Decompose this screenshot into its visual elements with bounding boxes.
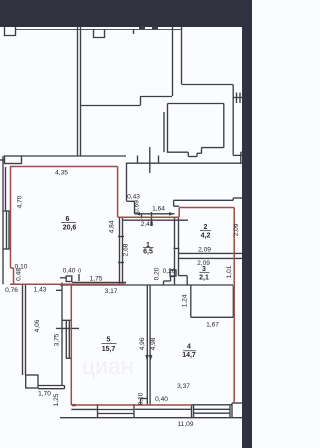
room labels (63, 216, 211, 359)
tick on corridor line (133, 30, 135, 35)
window hatch room6 left (3, 210, 11, 212)
underline room4 (183, 350, 196, 352)
svg-text:1,25: 1,25 (53, 393, 60, 406)
red over room1 y217 (118, 216, 180, 218)
red jog (11, 267, 14, 269)
corridor top thin line (15, 29, 181, 31)
zigzag steps (202, 147, 224, 149)
svg-text:циан: циан (82, 353, 134, 379)
jog up (140, 96, 142, 106)
svg-text:4: 4 (187, 344, 191, 351)
entry stub far left (0, 159, 5, 161)
red between rooms y284 (10, 283, 126, 285)
red right edge x234 (233, 208, 235, 404)
svg-text:0,76: 0,76 (5, 287, 18, 294)
dimension texts horizontal (5, 170, 219, 429)
svg-text:14,7: 14,7 (182, 352, 196, 359)
vertical x233 upper (232, 85, 234, 156)
svg-text:5: 5 (107, 337, 111, 344)
underline room6 (61, 222, 76, 224)
red top edge room6 (10, 166, 118, 168)
door post room6 bottom (66, 276, 72, 282)
svg-text:2,1: 2,1 (199, 275, 209, 282)
svg-text:4,35: 4,35 (55, 170, 68, 177)
shaft rect top y103.5 (168, 103, 224, 105)
svg-text:4,06: 4,06 (34, 319, 41, 332)
rooms5/4 divider double x148-151 (146, 285, 148, 405)
dark post at red corner (72, 404, 76, 406)
svg-text:6: 6 (66, 216, 70, 223)
rooms2-3 divider wall y253-258 (179, 252, 242, 254)
stairwell bottom wall double (38, 385, 65, 387)
svg-text:0,69: 0,69 (134, 200, 141, 213)
vertical wall x181 (181, 27, 183, 84)
room label underlines (61, 223, 211, 351)
underline room3 (200, 271, 210, 273)
room6/room1 wall double x119-122 (119, 218, 121, 286)
entry box (5, 156, 22, 164)
svg-text:0,20: 0,20 (154, 267, 161, 280)
link to band y155.4 (233, 154, 242, 156)
svg-text:4,96: 4,96 (139, 337, 146, 350)
svg-text:1,70: 1,70 (38, 391, 51, 398)
svg-text:6,5: 6,5 (143, 249, 153, 256)
small jog left of divider at bottom (140, 399, 142, 406)
shaft in room4 (190, 286, 192, 318)
red bottom edge y405 (71, 404, 192, 406)
stairwell left wall double (22, 285, 24, 375)
svg-text:2: 2 (204, 224, 208, 231)
niche left wall x126 (126, 163, 128, 202)
red right of room6 x117.6 (117, 167, 119, 218)
corridor wall to right y84 (182, 84, 234, 86)
red apartment outline (10, 167, 234, 406)
underline room2 (200, 230, 211, 232)
svg-text:1,24: 1,24 (182, 294, 189, 307)
tick x151 lower (151, 212, 153, 226)
svg-text:0,10: 0,10 (138, 392, 145, 405)
svg-text:2,09: 2,09 (233, 223, 240, 236)
svg-text:2,68: 2,68 (123, 243, 130, 256)
red top rooms2 y207.5 (179, 207, 234, 209)
tick after post (78, 274, 80, 281)
red step up x179 (178, 208, 180, 218)
shaft rect right x223.8 (223, 104, 225, 148)
red left edge x10 (10, 167, 12, 269)
niche jog (127, 200, 135, 202)
corridor lower wall y200.3 (174, 199, 234, 201)
svg-text:0,40: 0,40 (63, 268, 76, 275)
underline room5 (102, 342, 117, 344)
svg-text:20,6: 20,6 (63, 225, 77, 232)
room6 bottom inner wall left piece (60, 277, 66, 279)
notch near band (241, 151, 243, 153)
svg-text:0,40: 0,40 (155, 396, 168, 403)
pilaster notch 2 (94, 30, 105, 38)
svg-text:11,09: 11,09 (177, 421, 193, 428)
svg-text:3,75: 3,75 (54, 333, 61, 346)
svg-text:0: 0 (78, 269, 81, 275)
bottom wall inner line left of window (71, 408, 97, 410)
room6 left wall outer double (2, 156, 4, 284)
entry corridor wall y156 left (22, 155, 127, 157)
bottom window hatch x191-232 (191, 405, 193, 418)
svg-text:3,37: 3,37 (177, 383, 190, 390)
svg-text:1,67: 1,67 (206, 322, 219, 329)
svg-text:0,48: 0,48 (16, 268, 23, 281)
bottom window triple x97-134 (97, 404, 99, 418)
wire wall upper-left double vertical (77, 27, 79, 156)
bottom wall inner line x135-191 (135, 408, 192, 410)
svg-text:0,43: 0,43 (127, 194, 140, 201)
tick x141.5 on dim line (141, 214, 143, 219)
long corridor wall y163.2 (126, 162, 243, 164)
corridor wall horizontal y106 (80, 105, 140, 107)
bottom wall outer line y417.7 (60, 417, 242, 419)
red left of room5 x71.3 (70, 284, 72, 405)
svg-text:2,48: 2,48 (141, 221, 154, 228)
svg-text:1,64: 1,64 (152, 206, 165, 213)
jog 0,20 above room3 bottom (170, 270, 176, 276)
stairwell return (56, 289, 62, 291)
room1/rooms23 wall double x174.5-178.5 (174, 218, 176, 286)
shaft left x167 (167, 104, 169, 153)
svg-text:4,70: 4,70 (17, 195, 24, 208)
room1 top inner wall y221 (123, 219, 189, 221)
svg-text:3,17: 3,17 (105, 288, 118, 295)
dimension texts rotated (16, 195, 240, 406)
svg-text:1,43: 1,43 (34, 287, 47, 294)
pilaster notch 1 (5, 27, 16, 36)
main wall under rooms1-3 y285 (60, 284, 233, 286)
svg-text:15,7: 15,7 (102, 346, 116, 353)
right dark band (242, 27, 252, 448)
stairwell pillar (26, 375, 38, 388)
svg-text:4,84: 4,84 (109, 220, 116, 233)
long thin tick x150 (149, 147, 151, 173)
svg-text:0,20: 0,20 (163, 268, 176, 275)
niche ticks (137, 156, 139, 164)
dim line 1,64 (135, 213, 175, 215)
svg-text:4,2: 4,2 (201, 233, 211, 240)
underline room1 (143, 246, 154, 248)
top dark band (0, 0, 252, 27)
wall tie ladder symbol right (234, 97, 243, 99)
svg-text:1,75: 1,75 (90, 276, 103, 283)
room6 bottom inner wall right piece (72, 281, 126, 283)
door jamb room5 left (65, 320, 67, 358)
stairwell right wall (61, 283, 63, 386)
svg-text:2,09: 2,09 (198, 247, 211, 254)
bottom wall right piece (192, 404, 233, 406)
svg-text:1,01: 1,01 (226, 265, 233, 278)
svg-text:4,98: 4,98 (150, 337, 157, 350)
vertical wall x172 (172, 27, 174, 96)
